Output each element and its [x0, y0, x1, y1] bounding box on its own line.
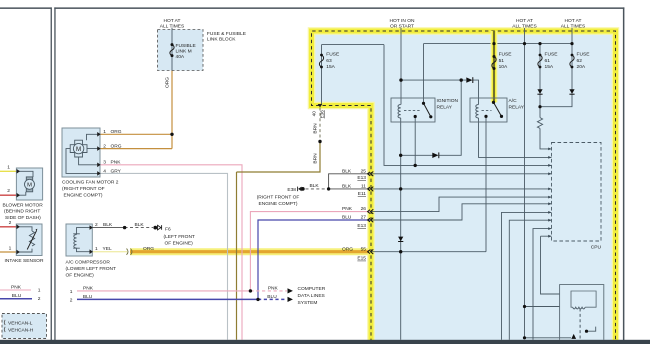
wire CPU input from bottom 1 [502, 212, 552, 339]
svg-text:FUSE: FUSE [577, 52, 591, 58]
junction dot BLK [327, 187, 330, 190]
wire ORG thick highlighted glow (A/C compressor feed) [130, 248, 369, 255]
wire PNK cooling fan pin3 [100, 165, 242, 340]
wire BLK A/C compressor pin2 to F6 [92, 227, 124, 229]
svg-text:BLK: BLK [310, 183, 320, 189]
fuse 61 symbol [538, 55, 542, 67]
svg-text:BRN: BRN [313, 153, 319, 164]
wire ORG 55 inside region [372, 251, 487, 253]
svg-text:2: 2 [9, 220, 12, 226]
svg-text:2: 2 [103, 144, 106, 150]
svg-text:20A: 20A [577, 64, 586, 70]
motor symbol M cooling fan [66, 134, 100, 173]
svg-text:VEHCAN-L: VEHCAN-L [8, 321, 33, 327]
connector E36 at notch [318, 104, 323, 107]
A/C relay box [470, 98, 507, 122]
fuse block F dashed box [158, 30, 204, 71]
svg-text:HOT AT: HOT AT [564, 18, 581, 24]
svg-text:RELAY: RELAY [509, 104, 525, 110]
wire BLK to connector 25/E13 [329, 174, 372, 189]
wire ORG intake sensor pin1 [0, 251, 16, 253]
svg-text:M: M [76, 146, 81, 153]
wire ORG cooling fan pin2 [100, 134, 172, 148]
svg-text:PNK: PNK [83, 285, 94, 291]
arrow at bottom branch [571, 334, 576, 339]
page top border right panel [54, 7, 624, 8]
wire RED intake sensor pin2 [0, 226, 16, 228]
cooling fan pin connectors [97, 132, 100, 176]
bus rail hot-at-all-times [424, 43, 573, 45]
wire HOT AT ALL TIMES feed to fusible link [171, 28, 173, 32]
svg-text:YEL: YEL [103, 246, 112, 252]
svg-text:15A: 15A [545, 64, 554, 70]
svg-text:E36: E36 [319, 110, 324, 119]
svg-text:PNK: PNK [111, 160, 122, 166]
svg-text:E11: E11 [358, 191, 367, 197]
region entry connectors [368, 172, 374, 255]
fuse 62 symbol [570, 55, 574, 67]
svg-text:55: 55 [361, 246, 367, 252]
svg-text:3: 3 [103, 160, 106, 166]
svg-text:62: 62 [577, 58, 583, 64]
wire A/C relay coil return to CPU [479, 118, 552, 157]
wire CPU to pressure element [541, 236, 560, 294]
svg-text:1: 1 [95, 246, 98, 252]
arrows computer data lines [288, 288, 293, 293]
wire PNK data line [77, 290, 250, 292]
svg-text:40: 40 [311, 111, 316, 117]
svg-text:(RIGHT FRONT OF: (RIGHT FRONT OF [257, 195, 300, 201]
wire ignition relay coil return [400, 118, 402, 340]
svg-text:61: 61 [545, 58, 551, 64]
A/C compressor box [66, 224, 92, 256]
wire small stub bottom right [587, 327, 596, 332]
cooling fan motor 2 box [62, 128, 100, 177]
wire A/C relay contact to ORG 55 [485, 116, 487, 251]
svg-text:ORG: ORG [342, 246, 353, 252]
svg-text:INTAKE SENSOR: INTAKE SENSOR [5, 258, 44, 264]
svg-text:HOT AT: HOT AT [163, 18, 180, 24]
ignition relay switch [424, 103, 431, 117]
A/C relay coil [476, 105, 479, 119]
svg-text:ORG: ORG [143, 246, 154, 252]
svg-text:FUSE & FUSIBLE: FUSE & FUSIBLE [207, 31, 247, 37]
svg-text:4: 4 [103, 168, 106, 174]
panel divider left line [51, 7, 52, 340]
wire HOT IN ON OR START feed [400, 28, 402, 105]
wire BLK 11 inside region [372, 188, 552, 190]
svg-text:FUSIBLE: FUSIBLE [176, 43, 197, 49]
wire BLU left panel stub [0, 298, 32, 300]
CPU input arrowheads [548, 148, 551, 238]
svg-text:PNK: PNK [342, 206, 353, 212]
svg-text:COMPUTER: COMPUTER [298, 286, 326, 292]
svg-text:LINK BLOCK: LINK BLOCK [207, 37, 236, 43]
svg-text:2: 2 [70, 297, 73, 303]
junction dots BLK F6 [123, 226, 126, 229]
svg-text:CPU: CPU [591, 245, 602, 251]
connector E38 [301, 187, 305, 191]
wire ORG cooling fan pin1 [100, 133, 172, 135]
wire CPU input from bottom 2 [509, 220, 551, 340]
svg-text:HOT IN ON: HOT IN ON [390, 18, 415, 24]
wire RED blower motor pin2 [0, 194, 16, 196]
svg-text:51: 51 [499, 58, 505, 64]
diode fuse 61 [537, 89, 542, 94]
wire ignition relay switch feed [423, 44, 425, 104]
clutch coil symbol [73, 228, 92, 252]
fuse 63 symbol [319, 55, 323, 67]
page bottom border [0, 340, 650, 344]
svg-text:ENGINE COMPT): ENGINE COMPT) [258, 201, 297, 207]
svg-text:E38: E38 [287, 187, 296, 193]
wire CPU input from bottom 3 [533, 229, 552, 340]
svg-text:(LEFT FRONT: (LEFT FRONT [164, 234, 195, 240]
blower motor box [16, 168, 42, 200]
resistor [537, 118, 542, 129]
svg-text:BLU: BLU [12, 293, 22, 299]
wire resistor output to CPU [540, 128, 552, 149]
page right border [623, 7, 625, 340]
svg-text:(RIGHT FRONT OF: (RIGHT FRONT OF [62, 186, 105, 192]
svg-text:BLK: BLK [135, 222, 145, 228]
svg-text:10A: 10A [499, 64, 508, 70]
svg-text:FUSE: FUSE [326, 52, 340, 58]
wire BLU 27 inside region [372, 204, 552, 220]
svg-text:FUSE: FUSE [545, 52, 559, 58]
diode coil feed [466, 77, 472, 82]
junction dots relay feeds [399, 78, 402, 81]
svg-text:ALL TIMES: ALL TIMES [561, 23, 586, 29]
svg-text:RELAY: RELAY [437, 104, 453, 110]
svg-text:PNK: PNK [268, 285, 279, 291]
svg-text:A/C: A/C [509, 98, 518, 104]
svg-text:ORG: ORG [111, 129, 122, 135]
wire HOT AT ALL TIMES feed 1 (long) [524, 28, 526, 338]
svg-text:1: 1 [103, 129, 106, 135]
junction dot ORG [170, 133, 173, 136]
svg-text:A/C COMPRESSOR: A/C COMPRESSOR [66, 260, 111, 266]
page top border left panel [0, 7, 52, 8]
svg-text:ALL TIMES: ALL TIMES [160, 23, 185, 29]
pressure relief element outer box [560, 285, 604, 340]
wire BLU data line [77, 298, 258, 300]
yellow highlight border [312, 31, 616, 342]
wire branch along bottom [525, 337, 572, 339]
svg-text:GRY: GRY [111, 168, 122, 174]
wire YEL A/C compressor pin1 [92, 251, 127, 253]
svg-text:E13: E13 [357, 175, 366, 181]
wire BRN from connector E36 (dashed then solid) [319, 108, 321, 141]
svg-text:FUSE: FUSE [499, 52, 513, 58]
svg-text:PNK: PNK [11, 285, 22, 291]
svg-text:M: M [27, 183, 32, 189]
svg-text:E15: E15 [357, 256, 366, 262]
svg-text:ORG: ORG [164, 77, 170, 88]
svg-text:IGNITION: IGNITION [437, 98, 459, 104]
wire BLK ground E38 dashed [306, 188, 328, 190]
svg-text:DATA LINES: DATA LINES [298, 293, 326, 299]
wire relay coil feed line to A/C relay [401, 80, 479, 104]
thermistor symbol [16, 227, 36, 252]
wire diode link line [401, 80, 462, 155]
svg-text:BLK: BLK [342, 168, 352, 174]
svg-text:2: 2 [38, 296, 41, 302]
svg-text:COOLING FAN MOTOR 2: COOLING FAN MOTOR 2 [62, 180, 119, 186]
wire fuse63 output jog to CPU [384, 45, 552, 166]
svg-text:11: 11 [361, 184, 366, 190]
svg-text:1: 1 [9, 245, 12, 251]
svg-text:2: 2 [95, 222, 98, 228]
wire PNK 26 inside region [372, 197, 552, 212]
svg-text:OF ENGINE): OF ENGINE) [165, 240, 194, 246]
svg-text:BLOWER MOTOR: BLOWER MOTOR [3, 202, 44, 208]
wire GRY cooling fan pin4 [100, 173, 228, 339]
wire fuse 51 highlighted [491, 31, 498, 102]
bus rail fuse block left [322, 44, 385, 46]
wire branch to element bottom [525, 306, 560, 308]
motor symbol M blower [16, 171, 34, 195]
svg-text:1: 1 [7, 164, 10, 170]
junction dots data lines [249, 289, 252, 292]
A/C relay switch [494, 102, 502, 116]
VEHCAN dashed box [2, 314, 47, 339]
svg-text:1: 1 [38, 288, 41, 294]
pressure relief element inner [571, 291, 596, 307]
svg-text:1: 1 [70, 289, 73, 295]
svg-text:F6: F6 [165, 226, 171, 232]
connector F6 [158, 225, 162, 230]
fusible link M symbol [170, 45, 174, 56]
diode fuse63 link [432, 153, 438, 158]
svg-text:26: 26 [361, 206, 367, 212]
svg-text:BLK: BLK [103, 222, 113, 228]
scalloped element [573, 307, 586, 309]
svg-text:BLK: BLK [342, 184, 352, 190]
svg-text:BRN: BRN [313, 123, 319, 134]
wire PNK left panel stub [0, 289, 31, 291]
svg-text:ORG: ORG [111, 144, 122, 150]
wire PNK 26 [250, 212, 371, 291]
diode on relay return [398, 237, 403, 242]
svg-text:E13: E13 [357, 223, 366, 229]
svg-text:VEHCAN-H: VEHCAN-H [8, 328, 34, 334]
panel divider right line [54, 7, 55, 340]
svg-text:HOT AT: HOT AT [516, 18, 533, 24]
svg-text:2: 2 [7, 188, 10, 194]
wire BLK 25 inside region [372, 173, 552, 175]
svg-text:OR START: OR START [390, 23, 414, 29]
fuse 51 symbol [492, 57, 496, 69]
black dashed line of highlight border [312, 31, 616, 342]
highlighted circuit region fill [312, 31, 616, 340]
wire ignition relay switch output [414, 117, 416, 166]
svg-text:ALL TIMES: ALL TIMES [512, 23, 537, 29]
wire fuse 63 [321, 45, 323, 105]
junction dots bottom [523, 305, 526, 308]
wire YEL blower motor pin1 [0, 170, 16, 172]
svg-text:15A: 15A [326, 64, 335, 70]
svg-text:25: 25 [361, 168, 367, 174]
junction dot BRN [318, 140, 321, 143]
svg-text:BLU: BLU [267, 294, 277, 300]
svg-text:ENGINE COMPT): ENGINE COMPT) [64, 192, 103, 198]
ignition relay box [391, 98, 435, 122]
intake sensor box [16, 224, 42, 256]
svg-text:BLU: BLU [342, 215, 352, 221]
svg-text:OF ENGINE): OF ENGINE) [66, 273, 95, 279]
wire ORG fusible link M output [171, 71, 173, 135]
svg-text:LINK M: LINK M [176, 49, 192, 55]
mechanical dashed link [579, 309, 581, 339]
CPU dashed box [552, 143, 602, 242]
junction dots rail [492, 42, 495, 45]
svg-text:(LOWER LEFT FRONT: (LOWER LEFT FRONT [66, 266, 117, 272]
svg-text:(BEHIND RIGHT: (BEHIND RIGHT [4, 209, 40, 215]
wire BLU 27 [258, 220, 372, 299]
svg-text:63: 63 [326, 58, 332, 64]
svg-text:40A: 40A [176, 54, 185, 60]
svg-text:27: 27 [361, 215, 367, 221]
ignition relay coil [398, 105, 401, 119]
svg-text:BLU: BLU [83, 294, 93, 300]
wire BLK to connector 11/E11 [329, 188, 372, 190]
wire HOT AT ALL TIMES feed 2 / fuse 62 [540, 28, 572, 107]
svg-text:SYSTEM: SYSTEM [298, 300, 318, 306]
diode fuse 62 [569, 89, 574, 94]
wire fuse 61 [539, 44, 541, 118]
splice symbol YEL-ORG [127, 249, 133, 255]
